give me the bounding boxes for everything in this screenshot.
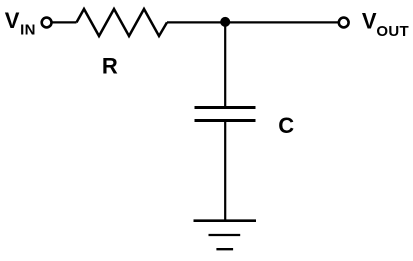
wire top — [167, 21, 338, 23]
label VIN — [5, 8, 36, 39]
wire input — [52, 21, 76, 23]
label VOUT — [362, 8, 409, 40]
ground — [194, 221, 257, 250]
svg-text:OUT: OUT — [376, 23, 409, 40]
svg-text:V: V — [362, 8, 377, 33]
resistor R — [77, 9, 168, 36]
capacitor C bottom plate — [195, 119, 256, 122]
svg-text:C: C — [278, 113, 294, 138]
svg-text:V: V — [5, 8, 20, 33]
wire cap bottom — [224, 122, 226, 221]
wire cap top — [224, 22, 226, 106]
svg-text:R: R — [102, 53, 118, 78]
capacitor C top plate — [195, 106, 256, 109]
node junction — [220, 17, 230, 27]
terminal output — [339, 18, 349, 28]
svg-text:IN: IN — [20, 22, 36, 39]
terminal input — [42, 18, 52, 28]
